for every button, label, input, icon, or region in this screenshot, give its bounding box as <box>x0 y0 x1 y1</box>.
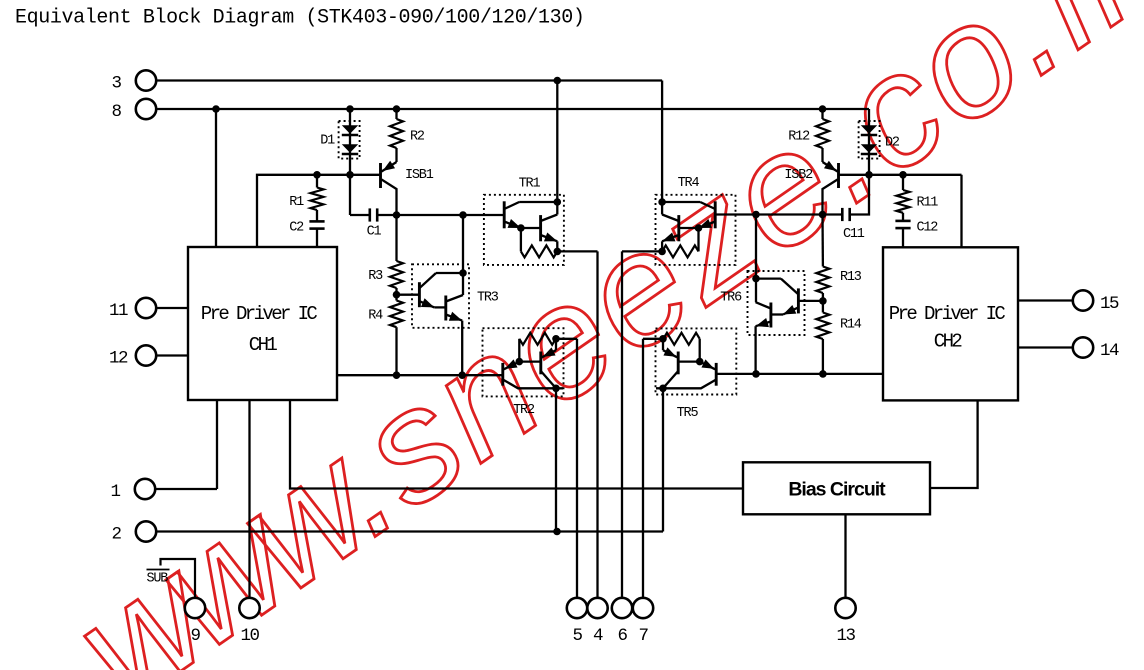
svg-text:C12: C12 <box>917 221 939 236</box>
svg-text:R4: R4 <box>368 309 383 324</box>
svg-text:R2: R2 <box>410 130 425 145</box>
svg-text:7: 7 <box>638 626 648 646</box>
svg-text:12: 12 <box>109 349 128 369</box>
svg-text:D1: D1 <box>320 134 335 149</box>
svg-text:www.sneeze.co.in: www.sneeze.co.in <box>45 0 1144 670</box>
svg-text:TR1: TR1 <box>519 177 541 192</box>
svg-text:Equivalent Block Diagram (STK4: Equivalent Block Diagram (STK403-090/100… <box>15 6 584 29</box>
svg-text:TR2: TR2 <box>513 403 535 418</box>
svg-text:D2: D2 <box>885 136 900 151</box>
svg-text:13: 13 <box>836 626 855 646</box>
svg-text:Bias Circuit: Bias Circuit <box>788 479 886 501</box>
svg-text:R3: R3 <box>368 269 383 284</box>
svg-text:3: 3 <box>111 74 121 94</box>
svg-text:4: 4 <box>593 626 603 646</box>
svg-text:R1: R1 <box>289 195 304 210</box>
svg-text:Pre Driver IC: Pre Driver IC <box>201 303 318 325</box>
svg-text:8: 8 <box>111 102 121 122</box>
svg-text:C11: C11 <box>843 227 865 242</box>
svg-text:CH2: CH2 <box>934 331 963 353</box>
svg-text:14: 14 <box>1100 341 1119 361</box>
svg-text:Pre Driver IC: Pre Driver IC <box>889 303 1006 325</box>
svg-text:ISB2: ISB2 <box>784 168 813 183</box>
svg-text:R13: R13 <box>840 270 862 285</box>
svg-text:11: 11 <box>109 301 128 321</box>
svg-text:SUB: SUB <box>147 572 169 587</box>
svg-text:R12: R12 <box>788 130 810 145</box>
svg-text:C1: C1 <box>367 225 382 240</box>
svg-text:1: 1 <box>110 482 120 502</box>
svg-text:R11: R11 <box>917 196 939 211</box>
svg-text:2: 2 <box>111 525 121 545</box>
svg-text:CH1: CH1 <box>249 334 278 356</box>
svg-text:ISB1: ISB1 <box>405 168 434 183</box>
svg-text:TR6: TR6 <box>720 291 742 306</box>
svg-text:R14: R14 <box>840 318 862 333</box>
svg-text:TR5: TR5 <box>677 406 699 421</box>
svg-text:15: 15 <box>1100 294 1119 314</box>
svg-text:6: 6 <box>617 626 627 646</box>
svg-text:9: 9 <box>190 626 200 646</box>
svg-text:TR4: TR4 <box>678 176 700 191</box>
svg-text:C2: C2 <box>289 221 304 236</box>
svg-text:5: 5 <box>572 626 582 646</box>
svg-text:10: 10 <box>240 626 259 646</box>
svg-text:TR3: TR3 <box>477 291 499 306</box>
